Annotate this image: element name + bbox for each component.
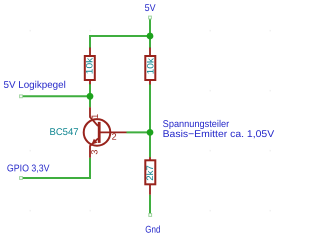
unconnected wire end at GPIO 3,3V — [20, 177, 23, 180]
svg-text:10k: 10k — [145, 58, 156, 75]
wire left drop to R1 top pin — [89, 35, 91, 48]
transistor collector path (pin 1) — [90, 107, 98, 126]
unconnected wire end at 5V Logikpegel — [20, 95, 23, 98]
svg-text:2: 2 — [112, 132, 117, 142]
unconnected wire end at 5V — [149, 16, 152, 19]
transistor base pin (pin 2) — [99, 131, 126, 133]
svg-text:1: 1 — [90, 114, 100, 119]
svg-text:10k: 10k — [83, 57, 94, 74]
wire R2 top pin to top junction — [149, 36, 151, 48]
svg-text:GPIO 3,3V: GPIO 3,3V — [7, 163, 50, 174]
svg-text:5V Logikpegel: 5V Logikpegel — [3, 80, 65, 91]
svg-text:Gnd: Gnd — [145, 225, 160, 236]
resistor 2k7: pins — [149, 157, 151, 160]
wire 5V Logikpegel stub — [23, 95, 90, 97]
junction divider/base node — [147, 129, 154, 136]
wire R3 bottom pin to Gnd stub — [149, 195, 151, 214]
transistor BC547 body circle — [84, 119, 111, 146]
svg-text:Basis−Emitter ca. 1,05V: Basis−Emitter ca. 1,05V — [163, 129, 275, 140]
svg-text:3: 3 — [89, 150, 99, 155]
svg-text:2k7: 2k7 — [144, 165, 155, 181]
wire emitter pin down and left to GPIO — [23, 158, 90, 178]
transistor emitter arrow — [91, 139, 97, 145]
resistor 10k right: body — [145, 56, 155, 80]
wire base pin to divider junction — [127, 131, 151, 133]
transistor emitter path (pin 3) — [90, 139, 98, 158]
wire 5V stub down to top junction — [149, 19, 151, 36]
junction 5V Logikpegel node — [87, 93, 94, 100]
transistor base bar — [98, 122, 101, 143]
junction top (5V bus) — [147, 33, 154, 40]
resistor 10k left: body — [85, 56, 95, 80]
wire R2 bottom pin to divider junction — [149, 84, 151, 132]
resistor 10k right: pins — [149, 48, 151, 56]
wire junction down to Q1 collector pin — [89, 96, 91, 107]
svg-text:5V: 5V — [145, 3, 156, 14]
resistor 2k7: body — [145, 160, 155, 184]
resistor 10k left: pins — [89, 48, 91, 56]
wire top horizontal bus — [89, 35, 150, 37]
wire R1 bottom pin to logic-level junction — [89, 84, 91, 97]
unconnected wire end at Gnd — [149, 214, 152, 217]
wire divider junction to R3 top pin — [149, 132, 151, 157]
svg-text:BC547: BC547 — [49, 127, 78, 138]
